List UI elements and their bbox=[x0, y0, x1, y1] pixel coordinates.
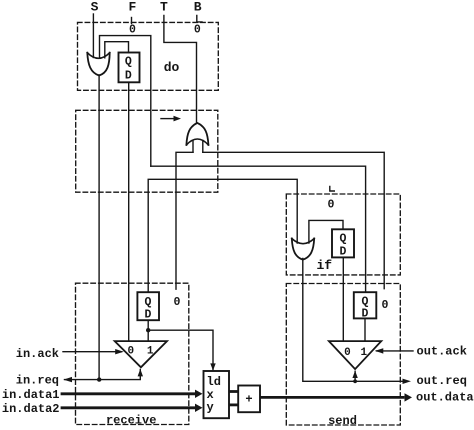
svg-text:out.req: out.req bbox=[417, 374, 467, 388]
svg-text:receive: receive bbox=[106, 414, 156, 428]
svg-text:S: S bbox=[91, 0, 99, 14]
svg-text:T: T bbox=[160, 0, 168, 14]
svg-text:if: if bbox=[316, 258, 332, 273]
svg-text:1: 1 bbox=[360, 347, 367, 359]
svg-text:0: 0 bbox=[127, 346, 134, 358]
svg-text:Q: Q bbox=[339, 233, 346, 246]
svg-text:D: D bbox=[125, 70, 132, 83]
svg-text:out.ack: out.ack bbox=[417, 345, 467, 359]
svg-text:in.data1: in.data1 bbox=[2, 388, 60, 402]
svg-text:0: 0 bbox=[174, 296, 181, 309]
svg-text:D: D bbox=[144, 308, 151, 321]
svg-text:out.data: out.data bbox=[416, 390, 474, 404]
svg-text:Q: Q bbox=[125, 56, 132, 69]
svg-text:send: send bbox=[328, 414, 357, 428]
svg-text:ld: ld bbox=[207, 375, 221, 389]
svg-text:D: D bbox=[362, 307, 369, 320]
svg-text:do: do bbox=[164, 60, 180, 75]
svg-text:in.data2: in.data2 bbox=[2, 402, 60, 416]
svg-text:0: 0 bbox=[194, 23, 201, 36]
svg-text:0: 0 bbox=[129, 23, 136, 36]
svg-text:Q: Q bbox=[144, 296, 151, 309]
svg-text:0: 0 bbox=[344, 347, 351, 359]
svg-text:0: 0 bbox=[328, 198, 335, 211]
svg-text:D: D bbox=[339, 245, 346, 258]
svg-text:B: B bbox=[194, 0, 202, 14]
svg-text:F: F bbox=[128, 0, 136, 14]
svg-text:0: 0 bbox=[382, 299, 389, 312]
svg-text:1: 1 bbox=[147, 346, 154, 358]
svg-text:+: + bbox=[245, 393, 252, 407]
svg-text:in.req: in.req bbox=[16, 374, 59, 388]
svg-text:in.ack: in.ack bbox=[16, 347, 59, 361]
svg-text:y: y bbox=[207, 400, 214, 414]
